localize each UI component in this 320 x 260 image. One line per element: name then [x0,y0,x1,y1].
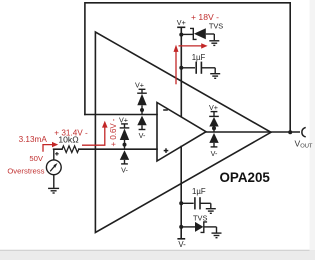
svg-text:10kΩ: 10kΩ [58,134,79,144]
svg-text:V+: V+ [177,18,186,27]
svg-text:3.13mA: 3.13mA [19,135,48,144]
svg-text:TVS: TVS [193,213,207,222]
svg-text:TVS: TVS [209,21,223,30]
svg-text:1µF: 1µF [192,187,206,196]
svg-text:V-: V- [121,165,128,174]
svg-text:V-: V- [139,131,146,140]
svg-text:50V: 50V [29,154,44,163]
svg-text:V-: V- [211,149,218,158]
svg-text:V+: V+ [209,103,218,112]
svg-text:OPA205: OPA205 [220,170,271,185]
svg-text:+ 0.6V -: + 0.6V - [109,118,118,146]
svg-text:Overstress: Overstress [7,167,44,176]
svg-text:V+: V+ [135,80,144,89]
svg-text:1µF: 1µF [192,53,206,62]
svg-text:V+: V+ [119,116,128,125]
svg-text:V-: V- [178,240,186,249]
